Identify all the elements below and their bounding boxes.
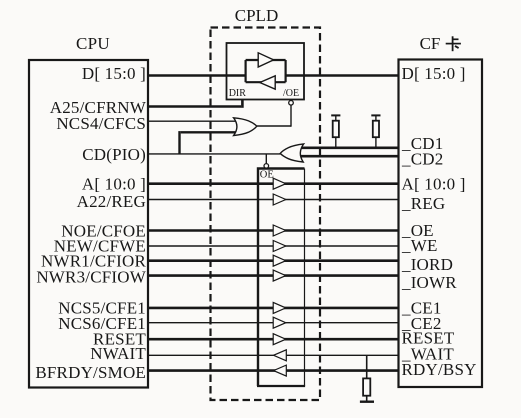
svg-text:_IOWR: _IOWR [401,273,457,292]
svg-text:D[ 15:0 ]: D[ 15:0 ] [82,64,146,83]
svg-text:_WE: _WE [401,236,438,255]
svg-text:NCS4/CFCS: NCS4/CFCS [56,114,146,133]
svg-text:A[ 10:0 ]: A[ 10:0 ] [402,175,466,194]
svg-text:DIR: DIR [229,88,247,99]
svg-text:/OE: /OE [283,88,299,99]
svg-text:A[ 10:0 ]: A[ 10:0 ] [82,175,146,194]
svg-text:OE: OE [260,169,274,180]
svg-text:RDY/BSY: RDY/BSY [402,360,477,379]
svg-text:CPU: CPU [76,34,110,53]
svg-text:A22/REG: A22/REG [77,192,146,211]
svg-text:BFRDY/SMOE: BFRDY/SMOE [35,363,146,382]
svg-text:_REG: _REG [401,194,445,213]
svg-text:CPLD: CPLD [235,6,278,25]
svg-text:D[ 15:0 ]: D[ 15:0 ] [402,64,466,83]
svg-text:_CD2: _CD2 [401,150,443,169]
svg-text:CF: CF [420,34,441,53]
svg-text:NWR3/CFIOW: NWR3/CFIOW [36,268,146,287]
svg-text:CD(PIO): CD(PIO) [82,145,146,164]
svg-text:_IORD: _IORD [401,255,453,274]
svg-text:NWAIT: NWAIT [90,344,146,363]
